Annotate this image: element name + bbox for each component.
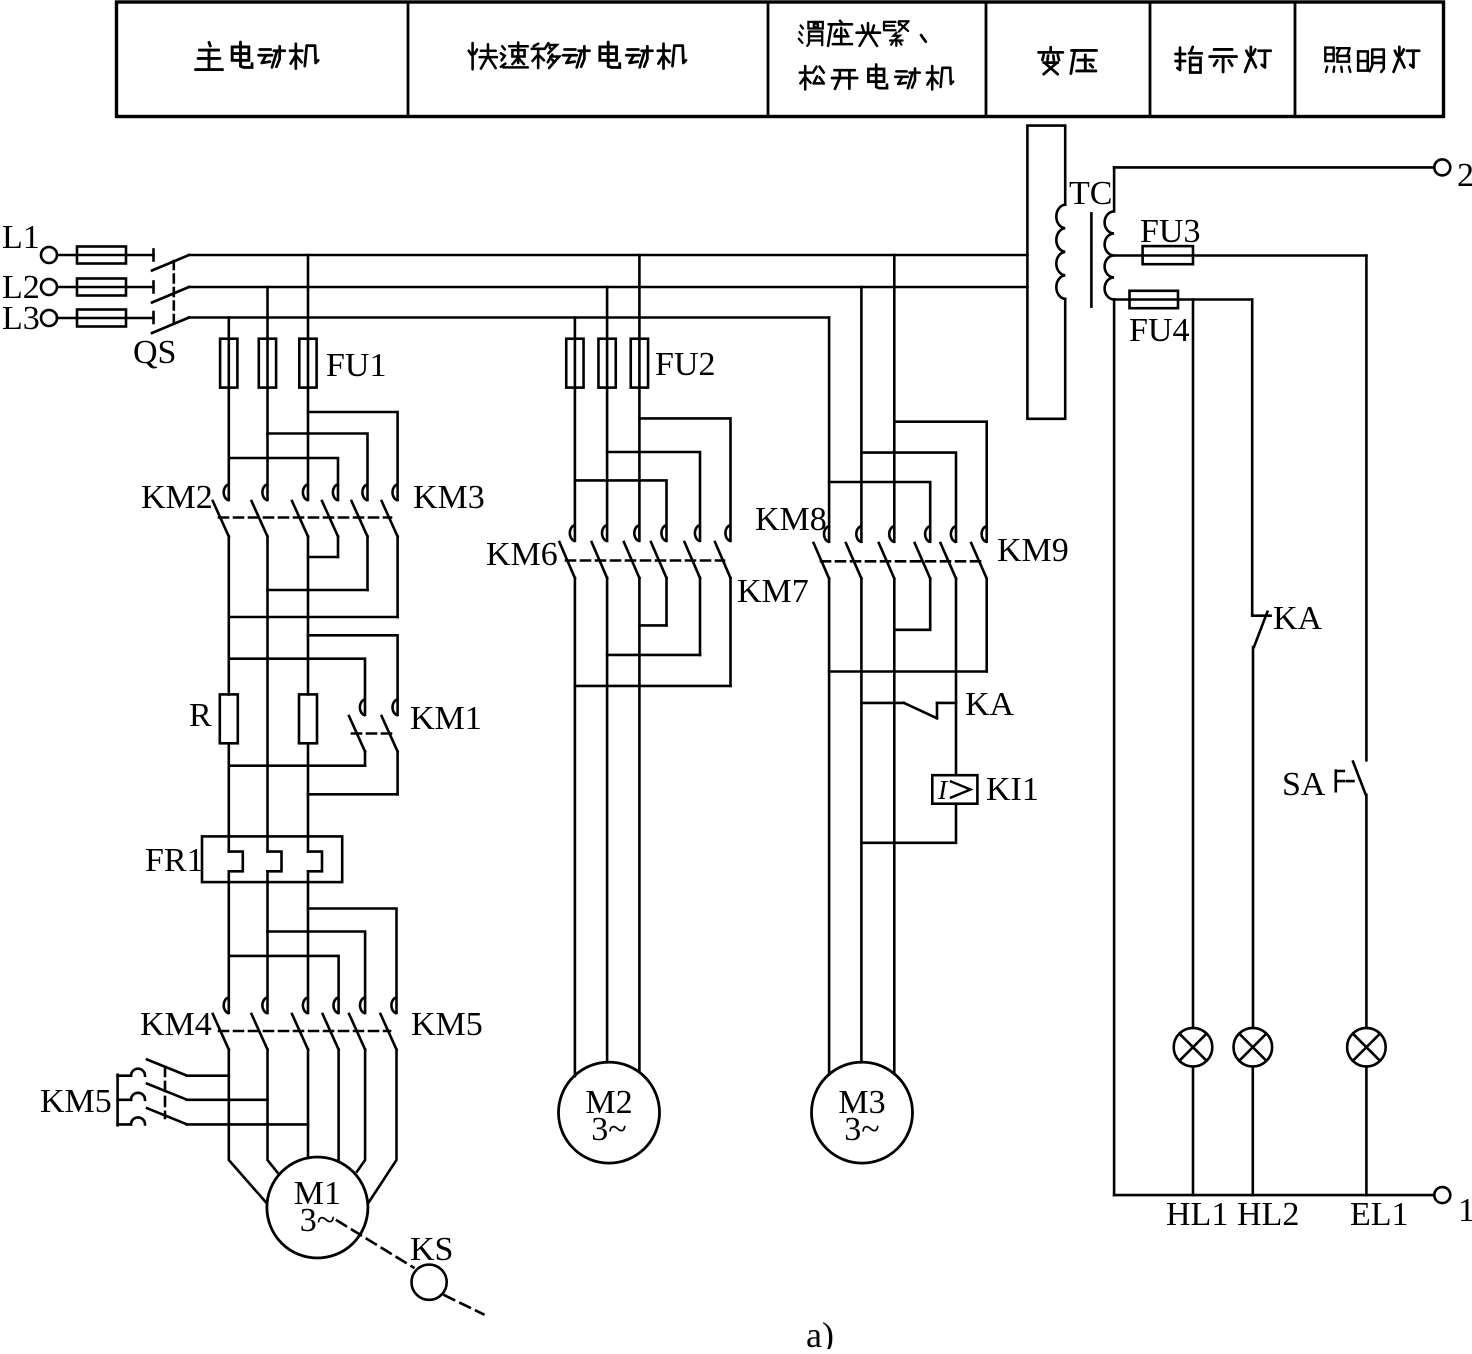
wire w3 from L1 through FU1 to KM2-3: [307, 255, 310, 500]
wire phase1 FR1 to KM4-1: [228, 871, 231, 1013]
wire KM3-3 down: [396, 537, 399, 618]
KM8-KM9 linkage dashed: [821, 560, 980, 563]
wire below R2: [307, 743, 310, 851]
fuse L1: [77, 247, 126, 264]
KM5 star linkage dashed: [164, 1067, 167, 1118]
branch w1 to KM3-1: [229, 458, 338, 500]
KA fixed contact tick: [936, 703, 939, 718]
wire KM4-3 to M1: [307, 1050, 310, 1158]
wire m2-w3 from L1 through FU2 to KM6-3: [638, 255, 641, 541]
KM5 star contact row2: [118, 1099, 131, 1102]
wire phase1 to M3: [828, 579, 831, 1075]
contactor KM9 contact 2: [951, 526, 956, 542]
fuse FU2 phase 2: [598, 339, 615, 388]
branch m3-w1 to KM9-1: [829, 482, 930, 542]
wire KM9-1 down: [929, 579, 932, 630]
svg-text:3~: 3~: [591, 1111, 626, 1148]
svg-text:EL1: EL1: [1350, 1196, 1409, 1233]
contactor KM8 contact 2: [856, 526, 861, 542]
contactor KM5 contact 2: [360, 998, 365, 1014]
QS blade L1: [152, 255, 189, 271]
svg-text:KM9: KM9: [997, 532, 1069, 569]
header label: indicator lamp: [1176, 47, 1271, 73]
contactor KM3 contact 2: [362, 485, 367, 501]
header label: illumination lamp: [1325, 47, 1419, 72]
crossover KM9-1 to phase3: [894, 628, 930, 631]
contactor KM6 contact 1: [570, 525, 575, 541]
wire m2-w1 from L3 through FU2 to KM6-1: [574, 318, 577, 541]
crossover KM3-2 to phase2: [268, 589, 368, 592]
contactor KM4 contact 2: [262, 998, 267, 1014]
fuse FU3: [1143, 246, 1193, 264]
HL1 rail lower: [1192, 1067, 1195, 1196]
terminal 2: [1434, 159, 1450, 175]
contactor KM3 contact 3: [392, 485, 397, 501]
wire KM9-3 down: [985, 579, 988, 672]
motor M2 circle: [559, 1062, 660, 1163]
svg-text:KA: KA: [965, 686, 1015, 723]
fuse FU2 phase 1: [566, 339, 583, 388]
crossover KM1 left to below R1: [229, 764, 365, 767]
branch m2-w1 to KM7-1: [575, 480, 667, 540]
svg-text:3~: 3~: [844, 1111, 879, 1148]
header label: rapid traverse motor: [469, 42, 686, 69]
terminal L3: [41, 310, 57, 326]
crossover KM3-3 to phase1: [229, 616, 398, 619]
fuse FU1 phase 1: [220, 339, 237, 388]
resistor R phase1: [220, 694, 238, 743]
transformer TC secondary winding: [1105, 167, 1115, 299]
contactor KM2 contact 2: [262, 485, 267, 501]
switch SA blade: [1353, 762, 1366, 795]
contactor KM2 contact 3: [303, 485, 308, 501]
branch phase3 to KM5-3: [308, 909, 397, 1014]
KM5 star contact row3: [118, 1123, 131, 1126]
svg-text:KM5: KM5: [40, 1083, 112, 1120]
wire L2 through fuse to QS: [57, 286, 154, 289]
wire KM7-2 down: [699, 578, 702, 655]
lamp EL1: [1347, 1028, 1386, 1067]
crossover KM7-3 to phase1: [575, 685, 731, 688]
branch w2 to KM3-2: [268, 434, 368, 501]
contactor KM2 contact 1: [224, 485, 229, 501]
svg-text:KA: KA: [1273, 600, 1323, 637]
KM4-KM5 linkage dashed: [219, 1030, 390, 1033]
wire m3-w2 from L2 down: [860, 287, 863, 542]
wire w2 from L2 through FU1 to KM2-2: [266, 287, 269, 500]
wire secondary top to terminal 2: [1114, 166, 1434, 169]
wire below R1: [228, 743, 231, 851]
contactor KM3 contact 1: [333, 485, 338, 501]
svg-text:SA: SA: [1282, 766, 1326, 803]
svg-text:FU2: FU2: [655, 346, 715, 383]
contactor KM5 contact 1: [333, 998, 338, 1014]
wire m3-w3 from L1 down: [893, 255, 896, 542]
contactor KM7 contact 1: [661, 525, 666, 541]
branch m3-w3 to KM9-3: [894, 422, 986, 542]
svg-text:2: 2: [1457, 157, 1472, 194]
transformer TC primary box: [1027, 126, 1065, 419]
terminal L2: [41, 279, 57, 295]
wire KA to KI1: [937, 703, 956, 775]
KM6-KM7 linkage dashed: [566, 559, 724, 562]
bus L1: [189, 254, 1027, 257]
FR1 heater phase3: [308, 852, 322, 872]
crossover KM7-2 to phase2: [607, 654, 700, 657]
wire phase2 down (no resistor): [266, 537, 269, 852]
branch w3 to KM3-3: [308, 412, 398, 500]
motor M3 circle: [812, 1062, 913, 1163]
svg-text:L3: L3: [2, 300, 40, 337]
wire phase3 to M3: [893, 579, 896, 1074]
wire KI1 bottom loop: [861, 804, 956, 843]
QS fixed contact tick L1: [152, 250, 155, 261]
wire secondary bottom tap through FU4 to KA rail: [1114, 298, 1252, 301]
contactor KM4 contact 1: [224, 998, 229, 1014]
KA tap wire: [861, 702, 904, 705]
fuse FU1 phase 3: [299, 339, 316, 388]
svg-text:KM2: KM2: [141, 479, 213, 516]
branch phase3 to KM1 right: [308, 635, 398, 715]
svg-text:KM5: KM5: [411, 1006, 483, 1043]
fuse FU1 phase 2: [259, 339, 276, 388]
lamp HL2: [1234, 1028, 1273, 1067]
svg-text:TC: TC: [1069, 175, 1112, 212]
wire KM4-1 to M1: [229, 1050, 267, 1204]
wire m3-w1 from L3 down: [828, 318, 831, 542]
svg-text:I: I: [937, 775, 949, 805]
wire secondary mid tap through FU3 to SA rail: [1114, 254, 1366, 257]
HL2 rail lower: [1252, 1067, 1255, 1196]
relay contact KA on rail: [1252, 612, 1270, 647]
contactor KM8 contact 1: [824, 526, 829, 542]
svg-text:FU1: FU1: [326, 347, 386, 384]
svg-text:KM4: KM4: [140, 1006, 212, 1043]
svg-text:KM6: KM6: [486, 536, 558, 573]
svg-text:FU4: FU4: [1129, 312, 1189, 349]
svg-text:HL2: HL2: [1237, 1196, 1299, 1233]
KM5 star contact row1: [118, 1074, 131, 1077]
wire phase3 to M2: [638, 578, 641, 1072]
terminal L1: [41, 247, 57, 263]
KS shaft dashed: [337, 1221, 414, 1268]
svg-text:KI1: KI1: [986, 771, 1039, 808]
wire phase1 down to R1: [228, 537, 231, 695]
left return rail: [1113, 300, 1116, 1196]
wire L3 through fuse to QS: [57, 317, 154, 320]
QS fixed contact tick L2: [152, 282, 155, 293]
bus L2: [189, 286, 1027, 289]
header column separators: [408, 2, 1295, 117]
KM5 star bus vertical: [116, 1075, 119, 1126]
contactor KM4 contact 3: [303, 998, 308, 1014]
SA rail lower: [1365, 795, 1368, 1028]
crossover KM7-1 to phase3: [639, 624, 666, 627]
bus L3: [189, 316, 829, 319]
KI1 overcurrent mark: [951, 782, 971, 798]
contactor KM1 contact right: [392, 700, 397, 716]
lamp HL1: [1174, 1028, 1213, 1067]
wire phase3 down to R2: [307, 537, 310, 695]
wire KM4-2 to M1: [268, 1050, 278, 1173]
relay contact KA blade: [904, 703, 937, 718]
fuse FU2 phase 3: [631, 339, 648, 388]
bottom bus to terminal 1: [1114, 1194, 1434, 1197]
header label: transformer: [1039, 47, 1097, 74]
branch phase2 to KM5-2: [268, 932, 366, 1014]
wire KM1 left bottom: [364, 752, 367, 766]
branch phase1 to KM5-1: [229, 956, 339, 1013]
wire KM1 right bottom: [396, 752, 399, 795]
KA rail lower: [1252, 647, 1255, 1028]
svg-text:KM1: KM1: [410, 700, 482, 737]
EL1 rail lower: [1365, 1067, 1368, 1196]
wire KM5-2 to M1: [357, 1050, 365, 1172]
branch phase1 to KM1 left: [229, 659, 365, 715]
wire phase2 FR1 to KM4-2: [266, 871, 269, 1013]
KM2-KM3 linkage dashed: [219, 516, 391, 519]
contactor KM6 contact 3: [634, 525, 639, 541]
wire w1 from L3 through FU1 to KM2-1: [228, 318, 231, 501]
svg-text:a): a): [806, 1315, 834, 1349]
QS blade L3: [152, 318, 189, 334]
FR1 heater phase2: [268, 852, 282, 872]
header label: slide clamp/release motor (2 lines): [799, 21, 953, 90]
current relay KI1 coil box: [932, 775, 977, 804]
svg-text:FU3: FU3: [1140, 213, 1200, 250]
contactor KM6 contact 2: [602, 525, 607, 541]
transformer TC primary winding: [1056, 205, 1065, 299]
resistor R phase3: [299, 694, 317, 743]
wire KM3-1 down: [337, 537, 340, 558]
wire KM7-3 down: [729, 578, 732, 686]
header label: main motor: [196, 42, 319, 70]
wire KM3-2 down: [366, 537, 369, 591]
wire KM5-1 to M1: [337, 1050, 340, 1162]
svg-text:R: R: [189, 697, 212, 734]
contactor KM5 contact 3: [391, 998, 396, 1014]
SA rail upper: [1365, 256, 1368, 761]
contactor KM8 contact 3: [889, 526, 894, 542]
FR1 heater phase1: [229, 852, 243, 872]
KA rail upper: [1251, 300, 1254, 616]
contactor KM7 contact 3: [725, 525, 730, 541]
svg-text:KS: KS: [410, 1231, 453, 1268]
thermal relay FR1 box: [202, 836, 342, 882]
wire phase3 FR1 to KM4-3: [307, 871, 310, 1013]
KM1 linkage dashed: [352, 732, 391, 735]
SA manual actuator: [1336, 771, 1354, 792]
contactor KM9 contact 3: [982, 526, 987, 542]
wire phase1 to M2: [574, 578, 577, 1076]
svg-text:FR1: FR1: [145, 842, 204, 879]
branch m3-w2 to KM9-2: [861, 453, 956, 542]
branch m2-w3 to KM7-3: [639, 418, 730, 540]
wire phase2 to M3: [860, 579, 863, 1063]
motor M1 circle: [267, 1157, 368, 1258]
wire KM5-3 to M1: [368, 1050, 397, 1204]
speed switch KS circle: [412, 1265, 447, 1300]
contactor KM9 contact 1: [925, 526, 930, 542]
KS shaft dashed lower: [445, 1295, 484, 1314]
QS blade L2: [152, 287, 189, 303]
wire m2-w2 from L2 through FU2 to KM6-2: [606, 287, 609, 541]
QS fixed contact tick L3: [152, 312, 155, 323]
wire KM9-2 down: [955, 579, 958, 703]
contactor KM1 contact left: [360, 700, 365, 716]
HL1 rail upper: [1192, 300, 1195, 1028]
header table box: [117, 2, 1444, 117]
crossover KM3-1 to phase3: [308, 556, 338, 559]
svg-text:1: 1: [1458, 1192, 1472, 1229]
svg-text:QS: QS: [133, 334, 176, 371]
crossover KM1 right to below R2: [308, 793, 398, 796]
svg-text:KM8: KM8: [755, 501, 827, 538]
fuse L3: [77, 310, 126, 327]
wire phase2 to M2: [606, 578, 609, 1062]
crossover KM9-3 to phase1: [829, 670, 987, 673]
branch m2-w2 to KM7-2: [607, 452, 700, 541]
terminal 1: [1434, 1187, 1450, 1203]
fuse L2: [77, 279, 126, 296]
svg-text:KM3: KM3: [413, 479, 485, 516]
svg-text:HL1: HL1: [1166, 1196, 1228, 1233]
wire L1 through fuse to QS: [57, 254, 154, 257]
transformer core: [1090, 213, 1093, 306]
contactor KM7 contact 2: [695, 525, 700, 541]
svg-text:3~: 3~: [300, 1202, 335, 1239]
QS linkage dashed: [173, 261, 176, 325]
wire KM7-1 down: [665, 578, 668, 625]
svg-text:KM7: KM7: [737, 573, 809, 610]
fuse FU4: [1130, 291, 1179, 308]
svg-text:L1: L1: [2, 219, 40, 256]
